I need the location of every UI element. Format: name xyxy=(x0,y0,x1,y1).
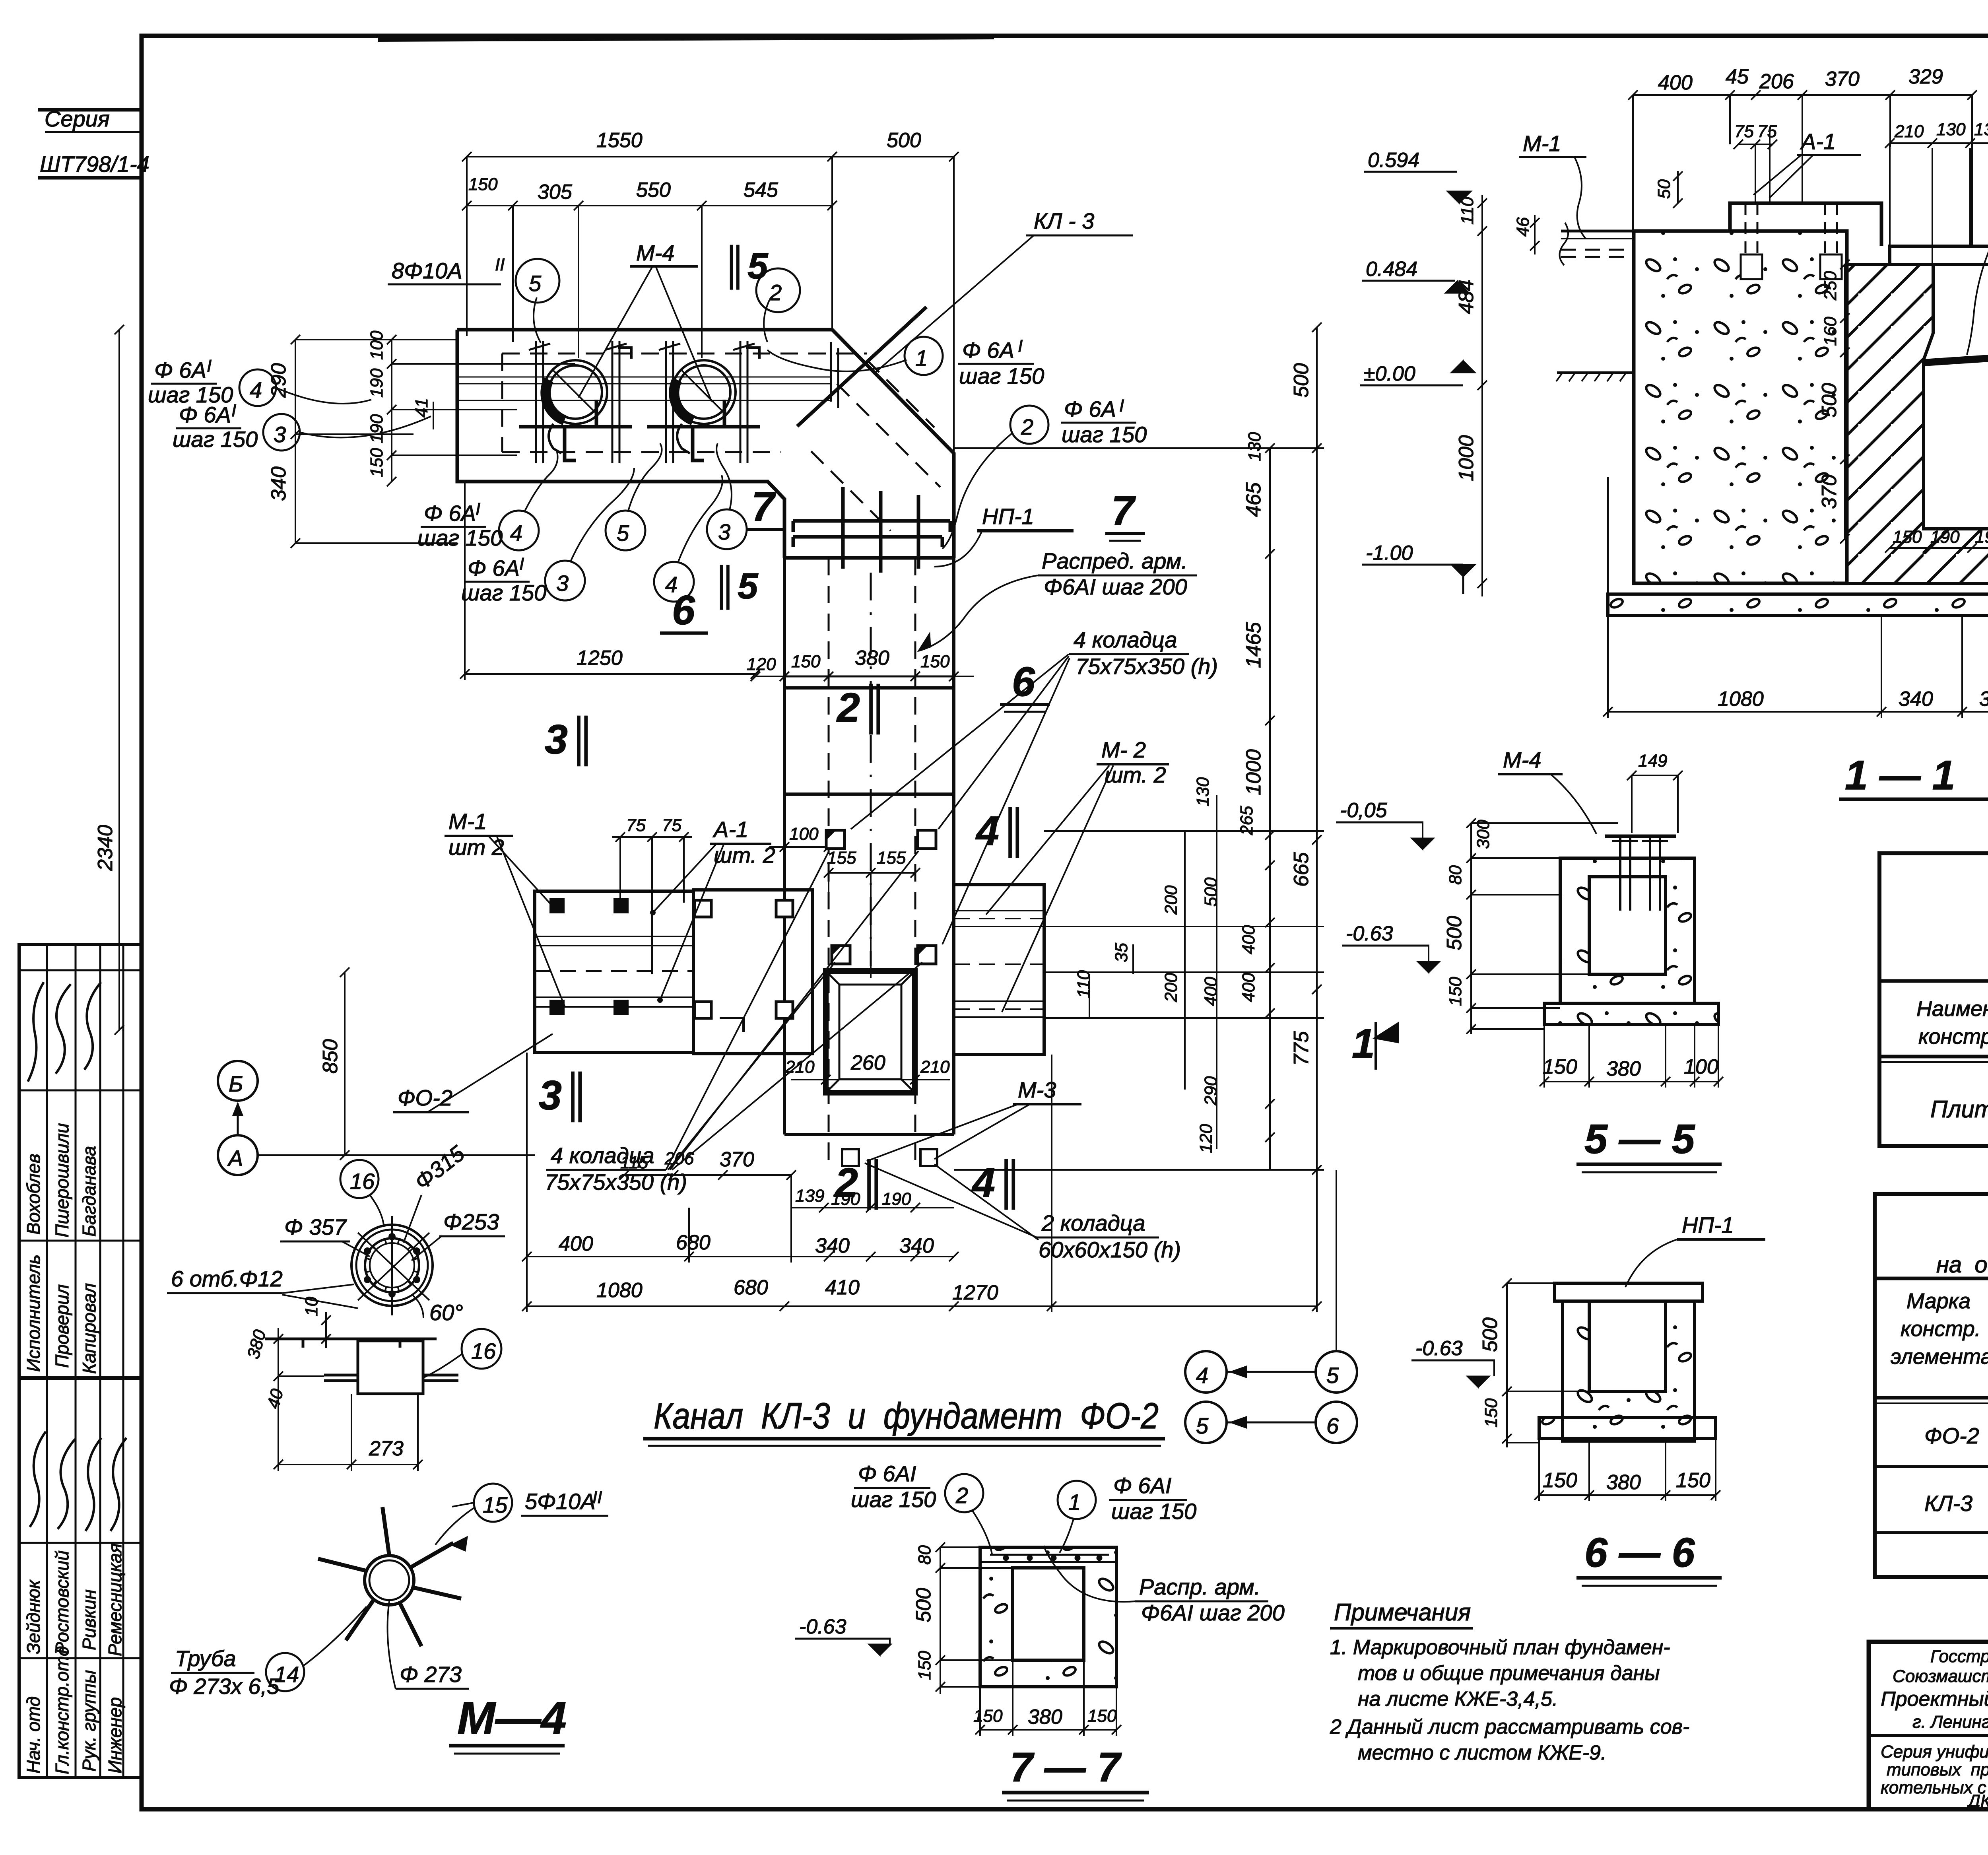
svg-text:Ростовский: Ростовский xyxy=(52,1550,72,1654)
svg-text:1250: 1250 xyxy=(577,647,623,670)
svg-text:75: 75 xyxy=(1757,122,1777,141)
svg-text:НП-1: НП-1 xyxy=(982,504,1034,529)
svg-text:шаг 150: шаг 150 xyxy=(959,363,1044,388)
svg-text:340: 340 xyxy=(899,1234,934,1257)
svg-text:Φ 6А: Φ 6А xyxy=(424,501,476,526)
svg-text:Примечания: Примечания xyxy=(1334,1599,1471,1626)
svg-text:465: 465 xyxy=(1242,482,1265,517)
svg-text:120: 120 xyxy=(1196,1124,1216,1153)
svg-text:0.594: 0.594 xyxy=(1368,149,1419,172)
svg-text:300: 300 xyxy=(1474,820,1493,849)
svg-text:150: 150 xyxy=(920,652,950,671)
svg-text:370: 370 xyxy=(720,1148,754,1171)
svg-text:340: 340 xyxy=(1899,688,1933,711)
svg-text:КЛ - 3: КЛ - 3 xyxy=(1034,208,1094,233)
svg-text:190: 190 xyxy=(367,414,386,443)
svg-text:Рук. группы: Рук. группы xyxy=(79,1670,99,1771)
svg-text:500: 500 xyxy=(1479,1317,1502,1352)
svg-text:273: 273 xyxy=(369,1437,404,1460)
svg-text:500: 500 xyxy=(1201,877,1221,907)
svg-text:150: 150 xyxy=(1676,1469,1710,1492)
svg-text:шаг 150: шаг 150 xyxy=(461,580,546,605)
svg-text:на листе КЖЕ-3,4,5.: на листе КЖЕ-3,4,5. xyxy=(1358,1688,1558,1711)
svg-text:3: 3 xyxy=(718,519,730,544)
svg-text:130: 130 xyxy=(1245,432,1264,461)
svg-text:380: 380 xyxy=(1606,1471,1641,1494)
svg-text:500: 500 xyxy=(1290,363,1313,398)
svg-text:Φ 6АI: Φ 6АI xyxy=(858,1461,916,1486)
svg-text:Зейднюк: Зейднюк xyxy=(23,1579,44,1654)
svg-text:ФО-2: ФО-2 xyxy=(398,1085,452,1110)
svg-text:2: 2 xyxy=(955,1483,968,1508)
svg-text:М-1: М-1 xyxy=(448,809,487,834)
svg-text:Наимен.: Наимен. xyxy=(1916,997,1988,1021)
svg-text:260: 260 xyxy=(850,1051,885,1074)
svg-text:500: 500 xyxy=(1443,916,1466,950)
svg-text:7: 7 xyxy=(1111,488,1136,534)
svg-text:190: 190 xyxy=(831,1189,860,1209)
svg-text:150: 150 xyxy=(791,652,821,671)
svg-text:ФО-2: ФО-2 xyxy=(1924,1423,1979,1448)
svg-text:1: 1 xyxy=(1352,1021,1375,1067)
svg-text:шаг 150: шаг 150 xyxy=(417,525,503,550)
svg-text:550: 550 xyxy=(636,179,671,202)
svg-text:8Φ10А: 8Φ10А xyxy=(392,258,462,283)
svg-text:35: 35 xyxy=(1112,943,1131,962)
svg-text:380: 380 xyxy=(855,647,889,670)
svg-text:130: 130 xyxy=(1974,120,1988,139)
svg-text:110: 110 xyxy=(1458,196,1477,225)
svg-text:46: 46 xyxy=(1513,217,1533,237)
svg-text:150: 150 xyxy=(1087,1706,1117,1726)
svg-text:120: 120 xyxy=(747,655,776,674)
svg-text:150: 150 xyxy=(1543,1469,1577,1492)
svg-text:4: 4 xyxy=(250,377,262,402)
svg-text:155: 155 xyxy=(877,848,906,868)
svg-text:4: 4 xyxy=(1196,1363,1208,1388)
svg-text:1: 1 xyxy=(1068,1490,1081,1515)
svg-text:149: 149 xyxy=(1638,751,1667,771)
svg-text:680: 680 xyxy=(734,1276,768,1299)
svg-text:г. Ленинград 1967г.: г. Ленинград 1967г. xyxy=(1912,1712,1988,1732)
svg-text:на один конструктивный моно: на один конструктивный монолитный элемен… xyxy=(1936,1252,1988,1278)
svg-text:ДКВР: ДКВР xyxy=(1966,1791,1988,1811)
svg-text:75: 75 xyxy=(662,816,681,835)
svg-text:190: 190 xyxy=(1930,527,1960,547)
svg-text:160: 160 xyxy=(1821,317,1840,346)
svg-text:Φ 6А: Φ 6А xyxy=(179,402,231,427)
svg-text:400: 400 xyxy=(1239,973,1258,1002)
svg-text:Распр. арм.: Распр. арм. xyxy=(1139,1574,1260,1599)
svg-text:I: I xyxy=(476,499,480,519)
svg-text:шаг 150: шаг 150 xyxy=(851,1487,936,1512)
svg-text:410: 410 xyxy=(825,1276,860,1299)
svg-text:-0.63: -0.63 xyxy=(1346,922,1393,945)
svg-text:2 коладца: 2 коладца xyxy=(1041,1210,1145,1235)
svg-text:16: 16 xyxy=(471,1338,496,1364)
svg-text:тов и общие примечания даны: тов и общие примечания даны xyxy=(1358,1662,1660,1685)
svg-text:139: 139 xyxy=(795,1186,824,1206)
svg-text:190: 190 xyxy=(882,1189,911,1209)
svg-text:340: 340 xyxy=(815,1234,850,1257)
svg-text:Пшерошвили: Пшерошвили xyxy=(52,1123,72,1237)
svg-text:Труба: Труба xyxy=(175,1646,236,1671)
svg-text:1465: 1465 xyxy=(1242,622,1265,668)
svg-text:3║: 3║ xyxy=(539,1072,591,1122)
svg-text:2340: 2340 xyxy=(94,825,117,871)
svg-text:5: 5 xyxy=(1326,1363,1339,1388)
svg-text:400: 400 xyxy=(1658,71,1693,94)
svg-text:75: 75 xyxy=(1734,122,1754,141)
svg-text:Φ 6А: Φ 6А xyxy=(1064,396,1116,422)
svg-text:150: 150 xyxy=(915,1651,934,1680)
svg-text:Инженер: Инженер xyxy=(105,1697,125,1773)
svg-text:0.484: 0.484 xyxy=(1366,258,1417,281)
svg-text:шаг 150: шаг 150 xyxy=(1062,422,1147,447)
svg-text:Вохоблев: Вохоблев xyxy=(23,1154,44,1235)
svg-text:5: 5 xyxy=(617,521,629,546)
svg-text:5: 5 xyxy=(529,271,542,296)
svg-text:I: I xyxy=(1119,396,1124,416)
svg-text:665: 665 xyxy=(1290,852,1313,887)
svg-text:Φ 6АI: Φ 6АI xyxy=(1113,1473,1171,1498)
svg-text:1. Маркировочный план фундамен: 1. Маркировочный план фундамен- xyxy=(1330,1636,1670,1659)
svg-text:I: I xyxy=(1018,336,1023,356)
svg-text:680: 680 xyxy=(676,1231,711,1254)
svg-text:370: 370 xyxy=(1825,68,1860,91)
svg-text:500: 500 xyxy=(887,129,921,152)
svg-text:2: 2 xyxy=(1021,414,1033,439)
svg-text:М-1: М-1 xyxy=(1523,131,1561,156)
svg-text:206: 206 xyxy=(664,1149,694,1168)
svg-text:484: 484 xyxy=(1455,280,1478,314)
svg-text:340: 340 xyxy=(267,466,290,501)
svg-text:150: 150 xyxy=(468,175,498,194)
svg-text:150: 150 xyxy=(973,1706,1003,1726)
svg-text:6 — 6: 6 — 6 xyxy=(1584,1530,1695,1576)
svg-text:I: I xyxy=(231,401,236,420)
svg-text:-0.63: -0.63 xyxy=(1415,1337,1463,1360)
svg-text:6: 6 xyxy=(1326,1413,1339,1438)
svg-text:80: 80 xyxy=(1446,865,1465,885)
svg-text:7: 7 xyxy=(751,484,776,530)
svg-text:1 — 1: 1 — 1 xyxy=(1845,752,1955,798)
svg-text:60°: 60° xyxy=(429,1300,463,1325)
svg-text:7 — 7: 7 — 7 xyxy=(1010,1744,1122,1791)
svg-text:4 коладца: 4 коладца xyxy=(1074,627,1177,652)
svg-text:3: 3 xyxy=(556,571,569,596)
svg-text:50: 50 xyxy=(1654,179,1674,199)
svg-text:100: 100 xyxy=(367,330,386,360)
svg-text:545: 545 xyxy=(744,179,779,202)
svg-text:║5: ║5 xyxy=(712,565,759,610)
svg-text:80: 80 xyxy=(915,1545,934,1565)
svg-text:305: 305 xyxy=(538,181,573,204)
svg-text:150: 150 xyxy=(1481,1398,1501,1428)
svg-text:370: 370 xyxy=(1818,474,1841,509)
svg-text:190: 190 xyxy=(1975,527,1988,547)
svg-text:340: 340 xyxy=(1979,688,1988,711)
svg-text:элемента: элемента xyxy=(1891,1345,1988,1369)
svg-text:206: 206 xyxy=(1759,70,1794,93)
svg-text:Гл.констр.отд: Гл.констр.отд xyxy=(52,1646,72,1774)
svg-text:10: 10 xyxy=(302,1297,321,1316)
svg-text:Капировал: Капировал xyxy=(79,1283,99,1374)
svg-text:500: 500 xyxy=(912,1588,935,1622)
svg-text:Нач. отд: Нач. отд xyxy=(23,1696,44,1773)
svg-text:Проектный институт№1: Проектный институт№1 xyxy=(1881,1688,1988,1711)
svg-text:329: 329 xyxy=(1908,65,1943,88)
svg-text:130: 130 xyxy=(1193,777,1213,806)
svg-text:М-4: М-4 xyxy=(1503,747,1541,772)
svg-text:II: II xyxy=(495,255,505,274)
svg-text:400: 400 xyxy=(559,1232,593,1255)
svg-text:Исполнитель: Исполнитель xyxy=(23,1255,44,1372)
svg-text:констр.: констр. xyxy=(1901,1317,1981,1341)
svg-text:Багданава: Багданава xyxy=(79,1146,99,1237)
svg-text:Ривкин: Ривкин xyxy=(79,1589,99,1650)
svg-text:Φ 6А: Φ 6А xyxy=(154,357,206,383)
svg-text:100: 100 xyxy=(1684,1055,1718,1078)
svg-text:265: 265 xyxy=(1237,806,1256,835)
svg-text:150: 150 xyxy=(1446,977,1465,1006)
svg-text:Марка: Марка xyxy=(1906,1289,1971,1313)
svg-text:210: 210 xyxy=(785,1057,815,1077)
svg-text:15: 15 xyxy=(483,1492,508,1517)
svg-text:150: 150 xyxy=(1893,527,1922,547)
svg-text:-0,05: -0,05 xyxy=(1340,799,1388,822)
svg-text:констр.: констр. xyxy=(1918,1025,1988,1049)
svg-text:400: 400 xyxy=(1239,925,1258,954)
svg-text:Φ6АI шаг 200: Φ6АI шаг 200 xyxy=(1044,574,1187,599)
svg-text:Плита: Плита xyxy=(1930,1096,1988,1123)
svg-text:Φ253: Φ253 xyxy=(443,1209,499,1234)
svg-text:250: 250 xyxy=(1821,271,1840,301)
svg-text:75х75х350 (h): 75х75х350 (h) xyxy=(545,1169,687,1195)
svg-text:3║: 3║ xyxy=(545,716,597,766)
svg-text:16: 16 xyxy=(350,1169,375,1194)
svg-text:150: 150 xyxy=(367,448,386,477)
svg-text:Серия унифицированных: Серия унифицированных xyxy=(1881,1742,1988,1762)
svg-text:290: 290 xyxy=(1201,1076,1221,1106)
svg-text:Φ 6А: Φ 6А xyxy=(962,338,1014,363)
svg-text:115: 115 xyxy=(620,1153,648,1172)
svg-text:1270: 1270 xyxy=(952,1281,998,1304)
svg-text:Φ 273: Φ 273 xyxy=(400,1662,462,1687)
svg-text:3: 3 xyxy=(274,422,286,447)
svg-text:Б: Б xyxy=(229,1071,243,1096)
svg-text:-0.63: -0.63 xyxy=(799,1615,846,1638)
svg-text:75х75х350 (h): 75х75х350 (h) xyxy=(1076,654,1218,679)
svg-text:150: 150 xyxy=(1543,1055,1577,1078)
svg-text:Φ 6А: Φ 6А xyxy=(468,556,520,581)
svg-text:шаг 150: шаг 150 xyxy=(173,427,258,452)
svg-text:I: I xyxy=(207,356,212,376)
svg-text:41: 41 xyxy=(412,398,431,418)
svg-text:190: 190 xyxy=(367,368,386,398)
svg-text:А-1: А-1 xyxy=(712,817,748,842)
svg-text:45: 45 xyxy=(1726,65,1749,88)
svg-text:5 — 5: 5 — 5 xyxy=(1584,1116,1696,1162)
svg-text:Канал КЛ-3 и фундамент ФО-: Канал КЛ-3 и фундамент ФО-2 xyxy=(654,1396,1159,1436)
svg-text:типовых проектов: типовых проектов xyxy=(1887,1760,1988,1779)
svg-text:М-4: М-4 xyxy=(636,240,674,265)
svg-text:±0.00: ±0.00 xyxy=(1364,362,1415,385)
svg-text:1000: 1000 xyxy=(1242,749,1265,795)
svg-text:КЛ-3: КЛ-3 xyxy=(1924,1491,1972,1516)
svg-text:200: 200 xyxy=(1161,885,1181,915)
svg-text:210: 210 xyxy=(920,1057,950,1077)
svg-text:Проверил: Проверил xyxy=(52,1284,72,1368)
svg-text:2: 2 xyxy=(769,280,782,305)
svg-text:I: I xyxy=(519,554,524,574)
svg-text:М- 2: М- 2 xyxy=(1101,737,1146,762)
svg-text:100: 100 xyxy=(789,824,819,844)
svg-text:2║: 2║ xyxy=(836,684,889,734)
svg-text:Ремесницкая: Ремесницкая xyxy=(105,1543,125,1656)
svg-text:500: 500 xyxy=(1818,383,1841,418)
svg-text:Госстрой СССР: Госстрой СССР xyxy=(1930,1647,1988,1666)
svg-text:400: 400 xyxy=(1201,977,1221,1006)
svg-text:155: 155 xyxy=(827,848,856,868)
svg-text:2 Данный лист рассматривать со: 2 Данный лист рассматривать сов- xyxy=(1330,1715,1689,1738)
svg-text:5: 5 xyxy=(1196,1413,1209,1438)
svg-text:14: 14 xyxy=(274,1662,299,1687)
svg-text:380: 380 xyxy=(1028,1705,1062,1729)
svg-text:М-3: М-3 xyxy=(1018,1077,1056,1102)
svg-text:1550: 1550 xyxy=(596,129,643,152)
svg-text:местно с листом КЖЕ-9.: местно с листом КЖЕ-9. xyxy=(1358,1741,1606,1764)
svg-text:А: А xyxy=(227,1146,243,1171)
svg-text:850: 850 xyxy=(319,1039,342,1074)
svg-text:6 отб.Φ12: 6 отб.Φ12 xyxy=(171,1266,283,1291)
svg-text:60х60х150 (h): 60х60х150 (h) xyxy=(1039,1237,1181,1262)
svg-text:75: 75 xyxy=(626,816,646,835)
svg-text:775: 775 xyxy=(1290,1031,1313,1066)
svg-text:4║: 4║ xyxy=(971,1159,1025,1210)
svg-text:130: 130 xyxy=(1936,120,1966,139)
svg-text:НП-1: НП-1 xyxy=(1682,1212,1734,1237)
svg-text:║5: ║5 xyxy=(722,245,769,289)
svg-text:4║: 4║ xyxy=(975,807,1029,858)
svg-text:1080: 1080 xyxy=(1718,688,1764,711)
svg-text:4: 4 xyxy=(510,521,522,546)
svg-text:200: 200 xyxy=(1161,973,1181,1002)
svg-text:6: 6 xyxy=(1012,659,1035,705)
svg-text:6: 6 xyxy=(672,587,695,633)
svg-text:Серия: Серия xyxy=(45,106,110,131)
svg-text:-1.00: -1.00 xyxy=(1366,542,1413,565)
svg-text:210: 210 xyxy=(1894,122,1924,141)
svg-text:М—4: М—4 xyxy=(457,1693,567,1744)
svg-text:1: 1 xyxy=(915,346,928,371)
svg-text:ШТ798/1-4: ШТ798/1-4 xyxy=(40,152,149,177)
svg-text:1000: 1000 xyxy=(1455,435,1478,481)
svg-text:380: 380 xyxy=(1606,1057,1641,1080)
svg-text:шаг 150: шаг 150 xyxy=(1111,1499,1196,1524)
svg-text:А-1: А-1 xyxy=(1800,129,1836,154)
svg-text:Φ 357: Φ 357 xyxy=(284,1214,347,1239)
svg-text:1080: 1080 xyxy=(596,1279,643,1302)
svg-text:Φ 273х 6,5: Φ 273х 6,5 xyxy=(169,1674,280,1699)
svg-text:Распред. арм.: Распред. арм. xyxy=(1042,548,1188,573)
svg-text:II: II xyxy=(592,1488,602,1507)
svg-text:Союзмашстройпроект: Союзмашстройпроект xyxy=(1893,1667,1988,1686)
svg-text:5Φ10А: 5Φ10А xyxy=(525,1489,596,1514)
svg-text:Φ6АI шаг 200: Φ6АI шаг 200 xyxy=(1141,1600,1285,1625)
svg-text:110: 110 xyxy=(1074,970,1093,998)
svg-text:шт 2: шт 2 xyxy=(448,835,504,860)
